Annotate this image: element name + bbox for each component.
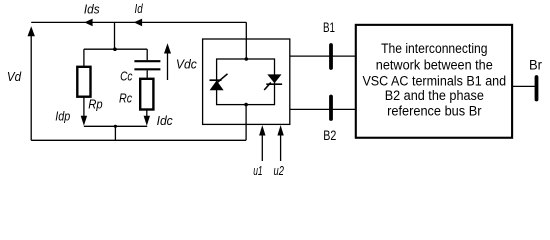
- svg-text:u1: u1: [253, 164, 262, 178]
- svg-text:Cc: Cc: [120, 69, 133, 83]
- svg-text:VSC AC terminals B1 and: VSC AC terminals B1 and: [362, 73, 506, 88]
- svg-text:Vd: Vd: [7, 70, 22, 84]
- svg-text:Id: Id: [135, 2, 144, 16]
- svg-text:The interconnecting: The interconnecting: [381, 41, 487, 56]
- svg-text:u2: u2: [274, 164, 284, 178]
- svg-text:Vdc: Vdc: [176, 58, 198, 72]
- svg-text:Rc: Rc: [119, 92, 133, 106]
- svg-text:Idc: Idc: [157, 114, 174, 128]
- svg-text:Br: Br: [529, 58, 542, 73]
- svg-text:B2: B2: [323, 128, 336, 143]
- svg-text:B2 and the phase: B2 and the phase: [385, 88, 484, 103]
- svg-text:Idp: Idp: [55, 109, 70, 123]
- svg-text:Rp: Rp: [88, 97, 102, 111]
- svg-text:Ids: Ids: [84, 2, 100, 16]
- svg-text:network between the: network between the: [376, 57, 493, 72]
- svg-text:reference bus Br: reference bus Br: [387, 103, 482, 118]
- svg-text:B1: B1: [323, 20, 335, 35]
